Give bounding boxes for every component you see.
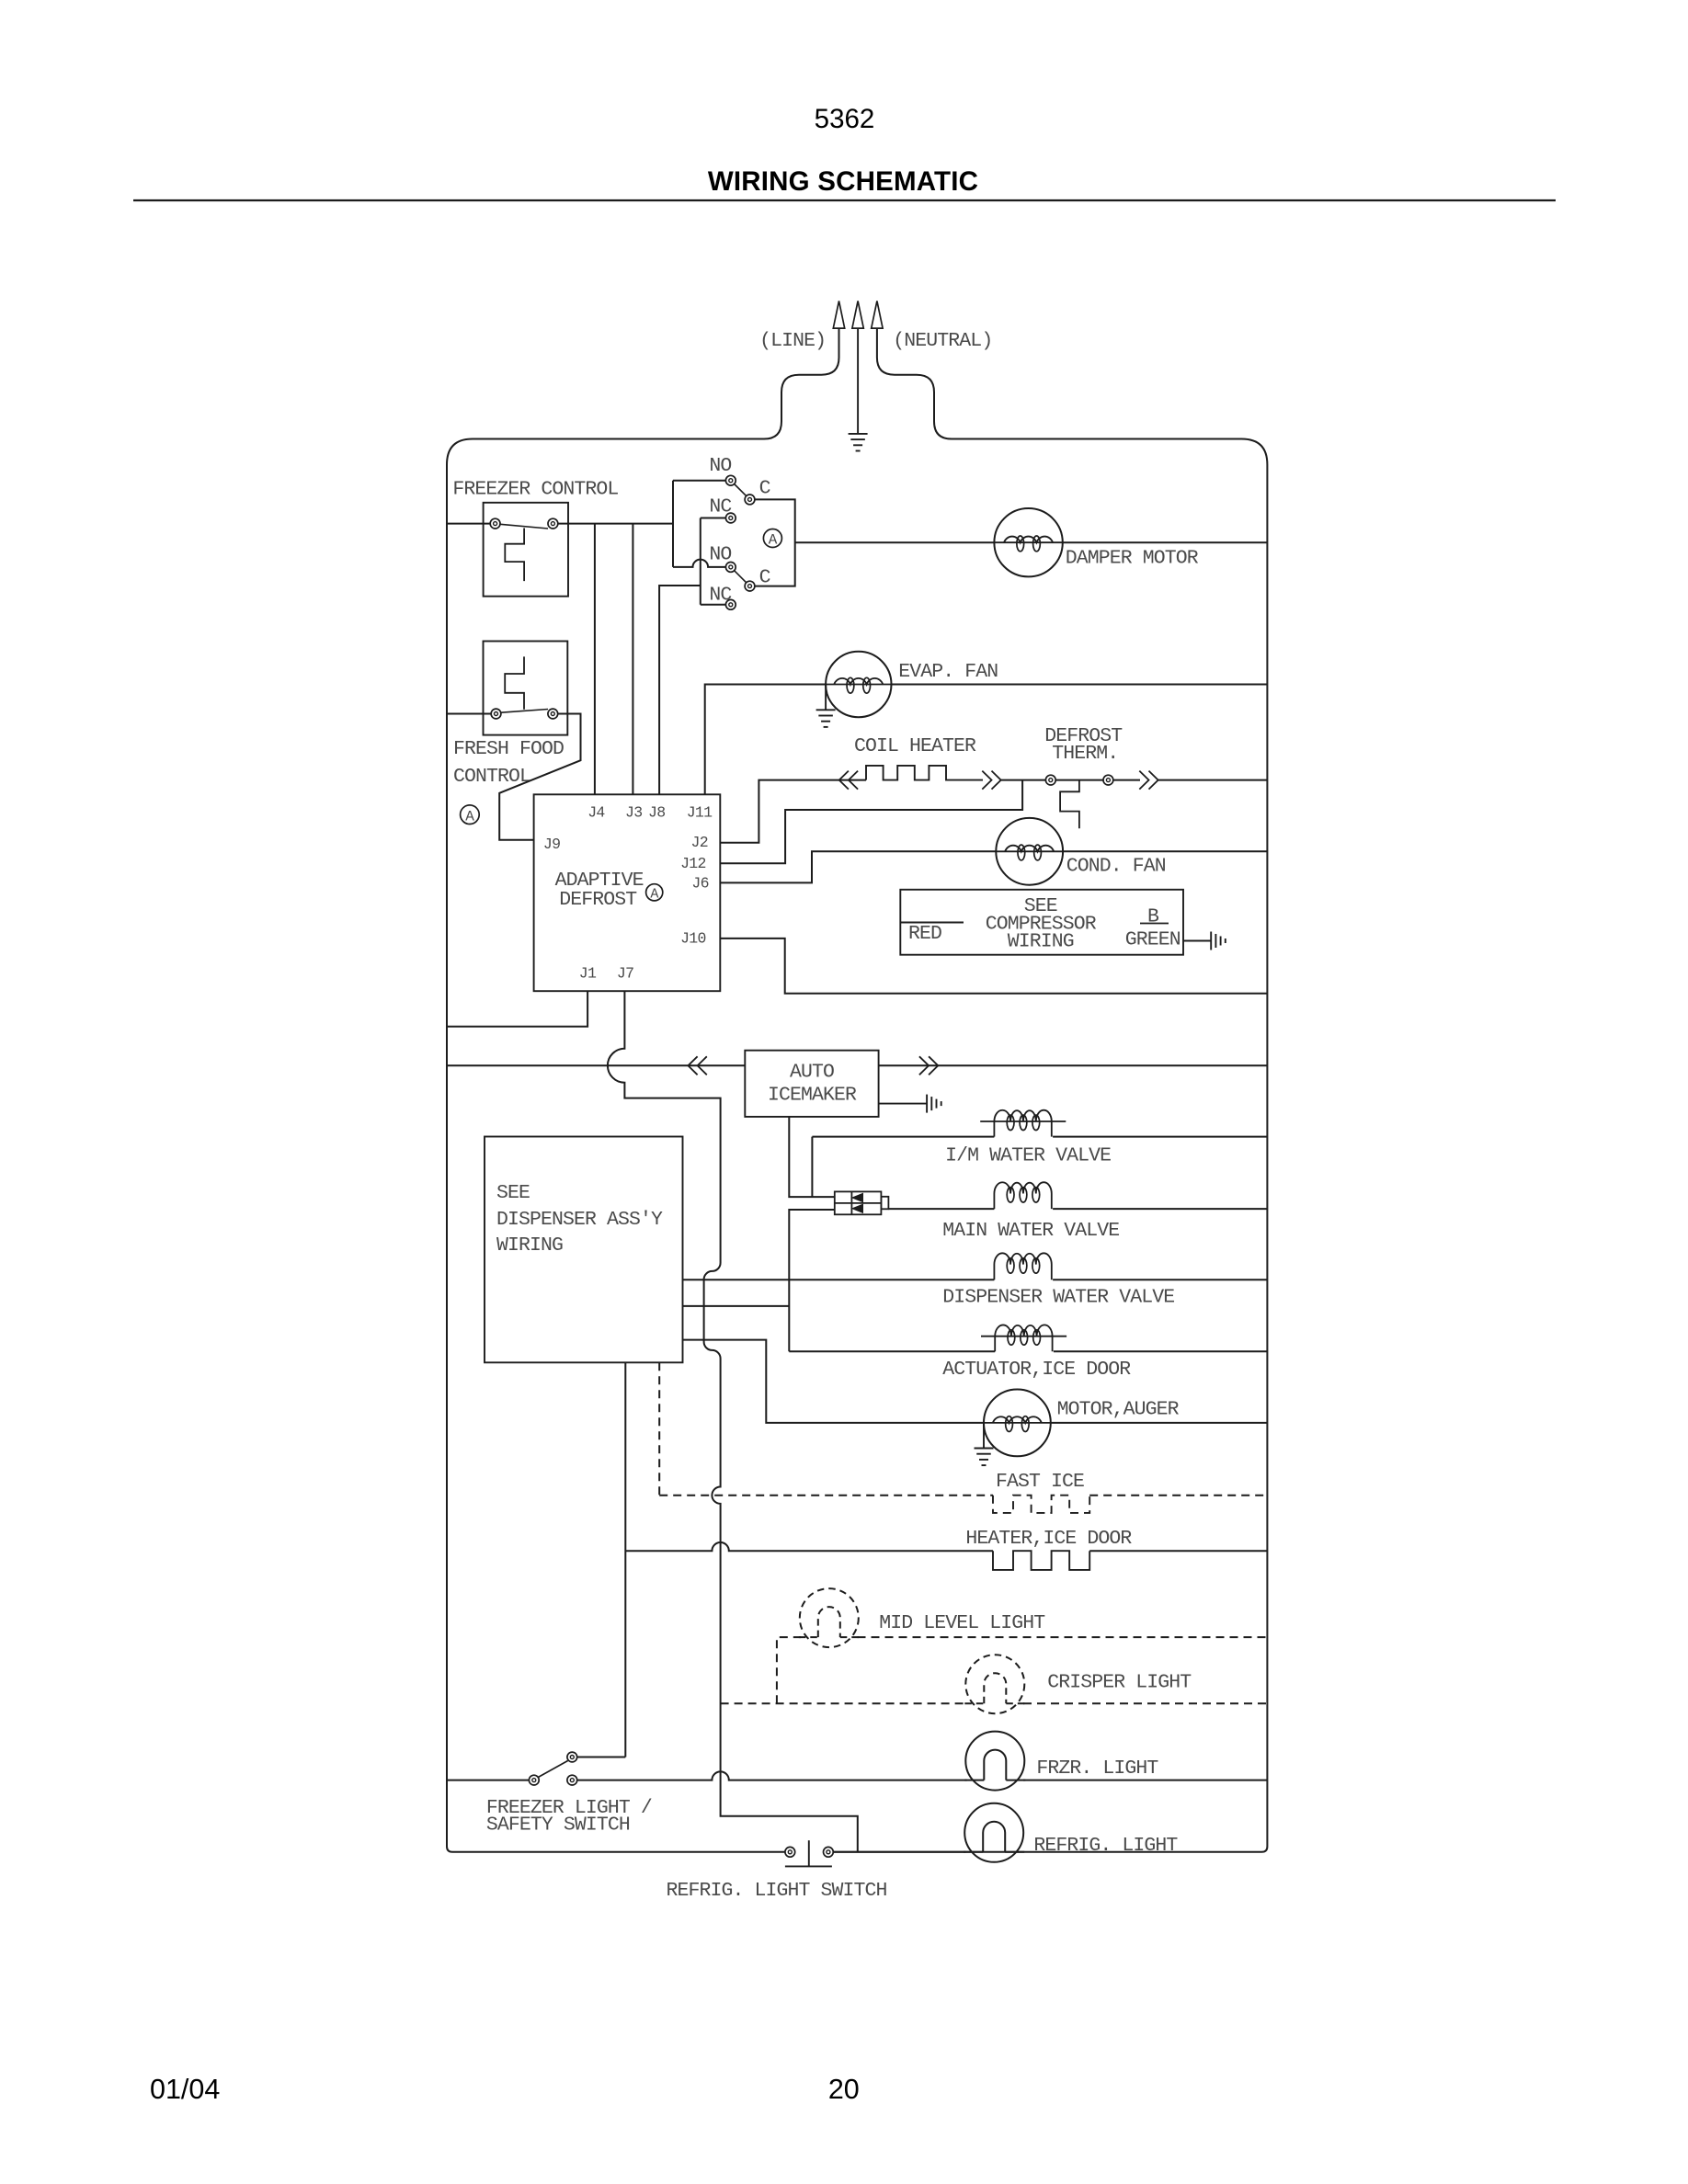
wire: safety switch upper to dispenser-box drop xyxy=(577,1757,626,1758)
fresh food left terminal xyxy=(491,709,501,719)
fast ice element (dashed) xyxy=(993,1496,1089,1513)
dispenser water valve coil L3 xyxy=(994,1253,1051,1280)
fresh food sensor zigzag xyxy=(505,656,524,709)
connector chevrons >> (coil heater right) xyxy=(982,771,1000,790)
wire: NC common vertical xyxy=(700,518,701,605)
svg-text:SEE: SEE xyxy=(496,1182,530,1204)
wire: auger motor to right rail xyxy=(1051,1422,1268,1424)
safety switch upper terminal xyxy=(567,1752,577,1762)
svg-text:HEATER,ICE DOOR: HEATER,ICE DOOR xyxy=(965,1528,1132,1550)
dispenser assembly box xyxy=(485,1137,683,1363)
upper switch C terminal xyxy=(745,495,755,505)
I/M water valve coil L1 xyxy=(994,1110,1051,1137)
actuator ice door coil L4 xyxy=(995,1325,1052,1351)
heater ice door element xyxy=(993,1551,1089,1570)
damper motor M1 xyxy=(994,508,1062,576)
wire: dashed dispenser port drop xyxy=(658,1362,660,1495)
connector chevrons << (icemaker left) xyxy=(688,1056,706,1075)
svg-text:WIRING SCHEMATIC: WIRING SCHEMATIC xyxy=(708,166,978,197)
svg-text:DAMPER MOTOR: DAMPER MOTOR xyxy=(1066,548,1199,570)
svg-text:MOTOR,AUGER: MOTOR,AUGER xyxy=(1057,1399,1180,1421)
wire: crisper light dashed line (left) xyxy=(721,1702,967,1704)
svg-text:AUTO: AUTO xyxy=(790,1062,834,1084)
compressor wiring box xyxy=(900,890,1183,955)
wire: actuator feed xyxy=(789,1350,995,1352)
wire: check valve outlet to main water valve xyxy=(888,1208,994,1210)
svg-text:A: A xyxy=(465,808,474,825)
svg-text:5362: 5362 xyxy=(815,104,875,134)
fresh food control S2 box xyxy=(484,642,568,735)
fresh food blade xyxy=(501,710,548,713)
svg-text:EVAP. FAN: EVAP. FAN xyxy=(898,661,998,683)
mid level light lamp (dashed) xyxy=(800,1588,859,1647)
wire: board J6 to cond fan xyxy=(720,851,996,882)
wire: board J12 riser joins heater line xyxy=(720,780,1022,864)
wire: therm connector to right rail xyxy=(1158,779,1268,781)
wire: board J1 to left rail xyxy=(447,991,587,1027)
wire: freezer light to right rail xyxy=(1023,1780,1267,1781)
svg-text:MAIN WATER VALVE: MAIN WATER VALVE xyxy=(942,1220,1119,1242)
wire: upper NC stub xyxy=(701,518,726,519)
svg-text:J12: J12 xyxy=(680,855,706,872)
wire: icemaker chassis ground stem xyxy=(879,1103,927,1105)
wire: I/M water valve feed xyxy=(812,1136,994,1138)
svg-text:FRESH FOOD: FRESH FOOD xyxy=(453,738,564,760)
wire: J3 drop xyxy=(632,524,633,795)
defrost thermostat sensor zigzag xyxy=(1060,780,1079,829)
svg-text:RED: RED xyxy=(908,923,941,945)
freezer control blade xyxy=(500,524,548,529)
svg-text:MID LEVEL LIGHT: MID LEVEL LIGHT xyxy=(879,1612,1045,1634)
wire: NC net to board J8 xyxy=(659,586,701,794)
svg-text:20: 20 xyxy=(828,2074,860,2105)
svg-text:(NEUTRAL): (NEUTRAL) xyxy=(893,330,992,352)
connector chevrons >> (therm right) xyxy=(1139,771,1158,790)
wire: fresh food control to board J9 xyxy=(499,714,580,840)
wire: port B to main-valve net xyxy=(683,1305,790,1307)
svg-text:WIRING: WIRING xyxy=(496,1234,563,1257)
svg-text:FRZR. LIGHT: FRZR. LIGHT xyxy=(1036,1757,1158,1780)
svg-text:J3: J3 xyxy=(625,804,642,822)
check valve outlet stub xyxy=(881,1197,888,1210)
upper switch NO terminal xyxy=(725,475,736,485)
svg-text:WIRING: WIRING xyxy=(1008,930,1074,952)
refrig switch left terminal xyxy=(785,1847,795,1857)
auto icemaker box xyxy=(745,1051,878,1117)
wire: J4 drop xyxy=(594,524,596,795)
wire: refrig switch to refrig light xyxy=(833,1851,965,1853)
svg-text:NO: NO xyxy=(709,544,731,566)
svg-text:COND. FAN: COND. FAN xyxy=(1066,856,1166,878)
wire: evap fan to right rail xyxy=(892,684,1268,686)
wire: plug ground stem xyxy=(857,328,859,434)
freezer control left terminal xyxy=(490,518,500,529)
lower switch NC terminal xyxy=(725,599,736,609)
refrig light lamp xyxy=(964,1803,1023,1862)
svg-text:NC: NC xyxy=(709,585,731,607)
fresh food right terminal xyxy=(548,709,558,719)
svg-text:J10: J10 xyxy=(680,930,706,948)
wire: damper motor to right rail xyxy=(1062,541,1267,543)
wire: mid level light dashed feed xyxy=(777,1637,801,1703)
svg-text:DEFROST: DEFROST xyxy=(559,889,637,911)
evap fan motor M2 xyxy=(826,652,891,717)
wire: NO common vertical xyxy=(672,481,674,567)
check valve upper diode xyxy=(852,1193,863,1201)
wire: between thermostat terminals xyxy=(1055,779,1103,781)
wire: board J10 to right rail xyxy=(720,938,1267,994)
main water valve coil L2 xyxy=(994,1182,1051,1209)
wire: dispenser valve to right rail xyxy=(1053,1279,1267,1280)
wire: B lead underline xyxy=(1140,923,1169,925)
svg-text:J8: J8 xyxy=(648,804,665,822)
crisper light lamp (dashed) xyxy=(965,1655,1024,1713)
wire: left rail to fresh food control xyxy=(447,713,491,715)
wire: lower NC stub xyxy=(701,604,726,606)
wire: GREEN lead to chassis ground xyxy=(1183,940,1211,942)
svg-text:THERM.: THERM. xyxy=(1052,743,1118,765)
svg-text:J1: J1 xyxy=(579,965,597,983)
svg-text:J6: J6 xyxy=(691,875,708,893)
refrig switch plunger xyxy=(808,1840,810,1866)
wire: RED compressor lead xyxy=(900,922,964,924)
connector chevrons << (coil heater left) xyxy=(839,771,858,790)
svg-text:B: B xyxy=(1147,906,1159,928)
svg-text:C: C xyxy=(759,478,770,500)
circled A (fresh food) xyxy=(461,805,480,825)
wire: board J2 riser to coil heater xyxy=(720,780,866,843)
wire: auger ground stem xyxy=(983,1423,985,1449)
safety switch lower-right terminal xyxy=(567,1775,577,1785)
wire: heater ice door feed with hop xyxy=(625,1542,993,1551)
wire: evap fan ground stem xyxy=(825,685,827,711)
freezer control S1 box xyxy=(484,503,568,597)
wire: icemaker to right rail xyxy=(879,1064,1268,1066)
wire: dispenser box to safety switch xyxy=(624,1362,626,1757)
upper switch blade xyxy=(735,484,747,496)
wire: mid level light to right rail xyxy=(858,1636,1268,1638)
svg-text:DISPENSER ASS'Y: DISPENSER ASS'Y xyxy=(496,1209,663,1231)
svg-text:COIL HEATER: COIL HEATER xyxy=(854,735,976,757)
plug prong arrow (NEUTRAL) xyxy=(872,301,883,328)
svg-text:(LINE): (LINE) xyxy=(759,330,826,352)
cond fan motor M3 xyxy=(996,818,1063,885)
svg-text:SAFETY SWITCH: SAFETY SWITCH xyxy=(486,1814,630,1837)
refrig switch base bar xyxy=(785,1865,832,1867)
svg-text:REFRIG. LIGHT: REFRIG. LIGHT xyxy=(1033,1835,1178,1857)
wire: safety switch to freezer light (hop) xyxy=(577,1771,967,1780)
svg-text:ICEMAKER: ICEMAKER xyxy=(768,1085,857,1107)
wire: check valve lower port to main valve net xyxy=(789,1210,835,1351)
wire: main valve to right rail xyxy=(1053,1208,1267,1210)
wire: board J11 riser to evap fan line xyxy=(705,685,826,795)
ground (icemaker) xyxy=(926,1095,928,1113)
svg-text:J11: J11 xyxy=(687,804,713,822)
refrig switch right terminal xyxy=(824,1847,834,1857)
ground (compressor GREEN) xyxy=(1210,932,1212,950)
outer border right loop (neutral-prong stem to right rail) xyxy=(833,328,1267,1852)
wire: crisper light to right rail xyxy=(1023,1702,1267,1704)
svg-text:NO: NO xyxy=(709,455,731,477)
wire: upper NO stub xyxy=(673,480,725,482)
wire: left rail to safety switch xyxy=(447,1780,529,1781)
auger motor M4 xyxy=(984,1390,1051,1457)
svg-text:J9: J9 xyxy=(543,836,560,853)
svg-text:J2: J2 xyxy=(691,834,708,851)
adaptive defrost control board xyxy=(534,794,721,991)
wire: I/M valve branch riser xyxy=(811,1137,813,1198)
outer border left loop (line-prong stem to left/bottom rails) xyxy=(447,328,839,1852)
wire: freezer control to switch assembly (junctions J4,J3) xyxy=(558,523,673,525)
freezer control sensor zigzag xyxy=(505,529,524,582)
svg-text:FAST ICE: FAST ICE xyxy=(996,1471,1084,1493)
plug prong arrow (ground) xyxy=(852,301,863,328)
lower switch blade xyxy=(735,571,747,583)
wire: switch assembly to damper motor xyxy=(795,541,995,543)
safety switch left terminal xyxy=(529,1775,539,1785)
circled A (board) xyxy=(646,884,663,901)
check valve lower diode xyxy=(852,1204,863,1212)
ground (auger motor) xyxy=(975,1448,994,1450)
svg-text:J4: J4 xyxy=(587,804,605,822)
svg-text:REFRIG. LIGHT SWITCH: REFRIG. LIGHT SWITCH xyxy=(667,1880,887,1902)
wire: port C to auger motor xyxy=(683,1340,985,1423)
svg-text:FREEZER CONTROL: FREEZER CONTROL xyxy=(452,479,618,501)
lower switch C terminal xyxy=(745,581,755,591)
wire: dispenser valve feed (port A) xyxy=(683,1279,995,1280)
svg-text:NC: NC xyxy=(709,496,731,518)
wire: heater ice door to right rail xyxy=(1089,1550,1267,1552)
svg-text:J7: J7 xyxy=(617,965,633,983)
ground (plug) xyxy=(849,433,868,435)
wire: actuator to right rail xyxy=(1054,1350,1268,1352)
switch assembly common box xyxy=(755,499,795,586)
upper switch NC terminal xyxy=(725,513,736,523)
svg-text:A: A xyxy=(650,887,658,903)
svg-text:DISPENSER WATER VALVE: DISPENSER WATER VALVE xyxy=(942,1287,1174,1309)
plug prong arrow (LINE) xyxy=(833,301,844,328)
wire: cond fan to right rail xyxy=(1063,850,1267,852)
wire: fast ice dashed line (right) xyxy=(1089,1495,1267,1496)
connector chevrons >> (icemaker right) xyxy=(919,1056,938,1075)
svg-text:CRISPER LIGHT: CRISPER LIGHT xyxy=(1047,1672,1192,1694)
freezer light lamp xyxy=(965,1732,1024,1791)
svg-text:GREEN: GREEN xyxy=(1125,929,1180,951)
wire: heater output to defrost thermostat xyxy=(1001,779,1046,781)
svg-text:A: A xyxy=(769,532,778,549)
wire: left rail to auto icemaker xyxy=(447,1064,745,1066)
defrost thermostat left terminal xyxy=(1045,775,1055,785)
lower switch NO terminal xyxy=(725,563,736,573)
wire: I/M valve to right rail xyxy=(1053,1136,1267,1138)
wire: board J7 long drop with hops and jogs xyxy=(608,991,858,1852)
ground (evap fan) xyxy=(816,709,836,711)
svg-text:ACTUATOR,ICE DOOR: ACTUATOR,ICE DOOR xyxy=(942,1359,1131,1381)
circled A (switch assembly) xyxy=(763,529,781,548)
title rule xyxy=(133,199,1556,201)
freezer control right terminal xyxy=(548,518,558,529)
coil heater element xyxy=(866,766,983,780)
check valve assembly body xyxy=(835,1191,882,1214)
wire: icemaker bottom port drop xyxy=(789,1117,835,1197)
svg-text:01/04: 01/04 xyxy=(150,2074,220,2105)
wire: left rail to freezer control xyxy=(447,523,490,525)
defrost thermostat right terminal xyxy=(1103,775,1113,785)
wire: lower NO stub with hop over NC vertical xyxy=(673,560,725,567)
wire: thermostat to >> connector xyxy=(1113,779,1140,781)
svg-text:I/M WATER VALVE: I/M WATER VALVE xyxy=(945,1145,1111,1167)
safety switch blade xyxy=(538,1761,567,1778)
wire: fast ice dashed line (left) xyxy=(659,1495,993,1496)
